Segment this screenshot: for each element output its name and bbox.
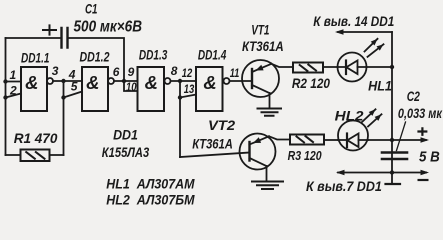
svg-text:DD1.1: DD1.1 [21, 50, 50, 66]
svg-text:9: 9 [128, 65, 135, 79]
svg-text:C2: C2 [407, 89, 421, 104]
svg-text:DD1.4: DD1.4 [198, 46, 227, 62]
svg-text:11: 11 [230, 66, 240, 80]
svg-text:VT2: VT2 [208, 117, 235, 133]
svg-text:К выв. 14 DD1: К выв. 14 DD1 [313, 13, 394, 29]
svg-text:VT1: VT1 [251, 22, 269, 38]
svg-text:DD1: DD1 [113, 126, 138, 142]
svg-text:0,033 мк: 0,033 мк [398, 106, 443, 121]
svg-text:DD1.2: DD1.2 [80, 49, 110, 65]
svg-text:13: 13 [184, 82, 195, 96]
svg-text:К155ЛА3: К155ЛА3 [102, 144, 150, 160]
svg-text:2: 2 [9, 84, 17, 98]
svg-text:10: 10 [126, 80, 137, 94]
svg-text:C1: C1 [85, 0, 98, 16]
svg-text:3: 3 [52, 64, 59, 78]
svg-text:HL1 АЛ307АМ: HL1 АЛ307АМ [106, 176, 194, 192]
svg-text:500 мк×6В: 500 мк×6В [74, 19, 143, 36]
svg-text:&: & [145, 72, 158, 93]
svg-text:5 В: 5 В [419, 149, 440, 166]
svg-text:R3 120: R3 120 [288, 148, 323, 163]
svg-text:R2 120: R2 120 [292, 75, 330, 91]
svg-text:R1 470: R1 470 [14, 130, 58, 146]
svg-text:6: 6 [113, 65, 120, 79]
svg-text:8: 8 [171, 64, 178, 78]
svg-text:HL2 АЛ307БМ: HL2 АЛ307БМ [106, 191, 194, 207]
svg-text:КТ361А: КТ361А [192, 135, 233, 151]
svg-text:12: 12 [182, 66, 193, 80]
svg-text:1: 1 [10, 68, 17, 82]
svg-text:КТ361А: КТ361А [242, 38, 284, 54]
svg-text:&: & [86, 72, 99, 93]
svg-text:HL2: HL2 [335, 107, 364, 123]
svg-text:DD1.3: DD1.3 [139, 46, 168, 62]
svg-text:К выв.7 DD1: К выв.7 DD1 [306, 178, 382, 194]
svg-text:HL1: HL1 [368, 78, 392, 94]
svg-text:5: 5 [71, 80, 78, 94]
svg-text:&: & [203, 72, 216, 93]
svg-text:&: & [25, 72, 38, 93]
